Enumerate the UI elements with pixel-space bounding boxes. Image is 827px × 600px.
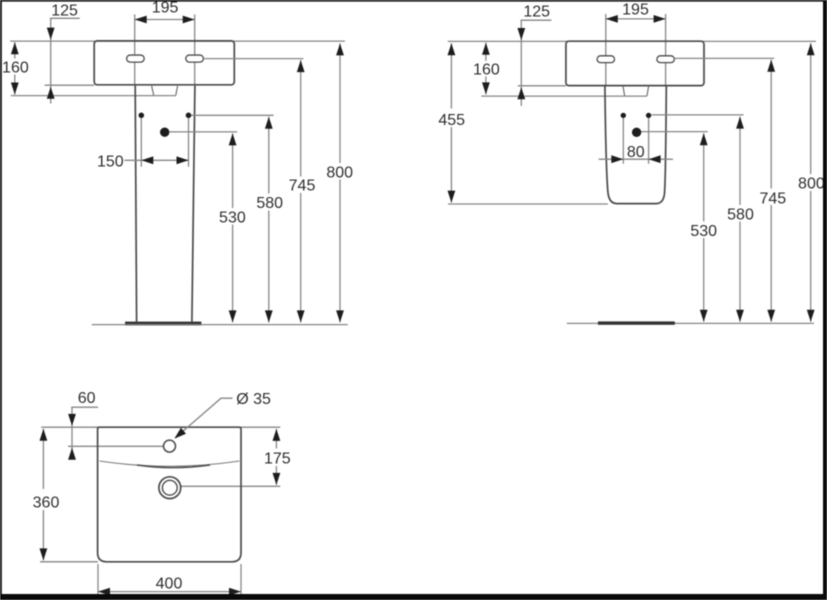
svg-text:745: 745 [759,190,786,207]
svg-text:175: 175 [264,451,291,468]
svg-text:745: 745 [289,178,316,195]
svg-text:400: 400 [156,576,183,593]
svg-text:530: 530 [219,209,246,226]
svg-text:455: 455 [438,112,465,129]
svg-text:125: 125 [523,3,550,20]
svg-text:160: 160 [2,59,29,76]
svg-text:125: 125 [51,3,78,20]
svg-text:580: 580 [256,195,283,212]
svg-text:360: 360 [33,495,60,512]
svg-text:160: 160 [473,62,500,79]
svg-text:Ø 35: Ø 35 [236,391,271,408]
svg-text:530: 530 [690,223,717,240]
svg-text:195: 195 [622,2,649,19]
svg-text:800: 800 [798,176,825,193]
svg-text:195: 195 [152,0,179,17]
svg-text:150: 150 [97,154,124,171]
svg-text:800: 800 [326,164,353,181]
svg-text:580: 580 [727,207,754,224]
svg-text:80: 80 [627,144,645,161]
svg-text:60: 60 [78,390,96,407]
